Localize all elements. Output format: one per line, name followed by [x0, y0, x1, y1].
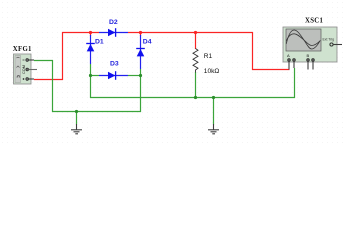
XFG1 terminal minus (bottom)	[26, 78, 29, 81]
wire green: riser to oscilloscope input A-	[294, 68, 296, 98]
svg-text:COM: COM	[22, 65, 26, 74]
wire red: to oscilloscope input A+	[252, 69, 290, 71]
node junction dot: D4 anode / D3 cathode	[139, 74, 142, 77]
XFG1 terminal COM (middle, unconnected stub)	[26, 68, 29, 71]
node junction dot: right ground tap	[212, 96, 215, 99]
wire green: left ground stub	[76, 112, 78, 125]
wire green: bridge right leg up to D4 anode node	[140, 69, 142, 112]
wire red: D1 cathode stub	[90, 33, 92, 37]
svg-text:D1: D1	[95, 39, 104, 46]
wire green: XFG1 plus terminal outward	[34, 60, 53, 62]
XSC1 terminal B-	[312, 59, 315, 62]
XSC1 terminal A+	[288, 59, 291, 62]
XSC1 terminal A-	[293, 59, 296, 62]
XSC1 trace channel A	[286, 30, 320, 49]
svg-text:XFG1: XFG1	[13, 46, 32, 53]
node junction dot: R1 top / top rail	[194, 31, 197, 34]
svg-text:D2: D2	[109, 19, 118, 26]
wire red: XFG1 minus terminal to riser	[34, 79, 63, 81]
wire green: D1 anode down to output rail corner	[90, 64, 92, 98]
ground symbol right	[208, 124, 219, 134]
node junction dot: D1 top / top rail	[89, 31, 92, 34]
XFG1 pin label plus	[23, 78, 25, 80]
wire green: right ground stub	[213, 98, 215, 125]
diode D1	[86, 35, 104, 64]
XFG1 terminal plus (top)	[26, 59, 29, 62]
svg-text:XSC1: XSC1	[305, 17, 323, 24]
wire green: D3 cathode lead to right node	[128, 75, 141, 77]
node junction dot: R1 bottom / output rail	[194, 96, 197, 99]
XSC1 ext trig terminal	[330, 43, 333, 46]
wire red: R1 top lead	[195, 33, 197, 50]
ground symbol left	[71, 124, 82, 134]
wire red: top rail left segment to D2 anode	[62, 32, 99, 34]
svg-text:Ext Trig: Ext Trig	[323, 38, 335, 42]
wire red: riser up to top rail	[62, 32, 64, 80]
node junction dot: D4 top / top rail	[139, 31, 142, 34]
svg-text:A: A	[287, 53, 290, 58]
XSC1 trace channel B	[286, 34, 319, 46]
diode D4	[136, 35, 152, 69]
XFG1 waveform marks	[17, 57, 21, 77]
node junction dot: D1 anode / D3 anode	[89, 74, 92, 77]
XSC1 terminal B+	[307, 59, 310, 62]
wire green: D3 anode lead from left node	[91, 75, 100, 77]
wire red: drop to scope level	[252, 32, 254, 70]
svg-text:D4: D4	[143, 39, 152, 46]
svg-text:B: B	[307, 53, 310, 58]
wire green: R1 bottom lead	[195, 72, 197, 98]
XFG1 pin label minus	[23, 59, 25, 61]
wire green: lower input rail to bridge right leg	[52, 111, 141, 113]
node junction dot: left ground tap	[75, 110, 78, 113]
XSC1 screen	[286, 29, 321, 51]
svg-text:D3: D3	[110, 61, 119, 68]
wire red: top rail right segment from D2 cathode to right corner	[128, 32, 253, 34]
oscilloscope XSC1	[283, 17, 342, 69]
wire green: output rail to scope riser	[90, 97, 295, 99]
wire green: drop from XFG1 plus down to lower rail	[52, 60, 54, 112]
diode D2	[99, 19, 128, 37]
svg-text:10kΩ: 10kΩ	[204, 68, 220, 75]
function generator XFG1	[13, 46, 37, 84]
wire red: D4 cathode stub	[140, 33, 142, 37]
resistor R1	[193, 49, 219, 76]
diode D3	[99, 61, 128, 80]
svg-text:R1: R1	[204, 53, 213, 60]
